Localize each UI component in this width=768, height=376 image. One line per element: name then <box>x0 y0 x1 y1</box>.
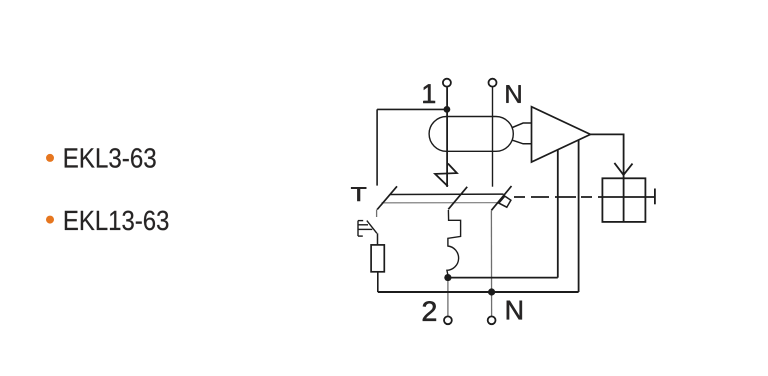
test button contact blade <box>367 221 377 234</box>
trip solenoid squiggle on pole 1 <box>447 210 461 275</box>
switch contact blade test branch <box>377 186 397 209</box>
trip coil center conductor <box>623 178 625 222</box>
switch contact blade pole N <box>491 186 511 210</box>
arrowhead into trip coil <box>614 163 632 175</box>
label 1 <box>423 84 435 103</box>
wire pole N vertical (terminal N down through toroid to fixed contact) <box>492 87 494 186</box>
mechanical linkage bar bottom line <box>382 202 501 204</box>
bullet list item 1 text EKL3-63 <box>65 148 156 168</box>
CT secondary winding link lower <box>512 140 531 144</box>
terminal 2 circle <box>444 316 452 324</box>
node junction dot pole 1 bottom <box>444 274 451 281</box>
trip actuator Z symbol on pole 1 <box>435 164 457 187</box>
dashed linkage to trip coil <box>514 196 602 198</box>
trip coil actuator line <box>602 196 654 198</box>
current transformer toroid <box>429 117 513 152</box>
wire test branch horizontal <box>377 108 447 110</box>
terminal N bottom circle <box>488 316 496 324</box>
wire pole 1 to terminal 2 <box>447 281 449 316</box>
wire pole 1 vertical (terminal 1 down through toroid to fixed contact) <box>446 87 448 186</box>
test button fixed lead <box>376 210 378 218</box>
label N bottom <box>507 301 522 320</box>
wire test branch vertical <box>376 109 378 185</box>
trip coil square <box>602 178 645 222</box>
label 2 <box>423 301 436 321</box>
bullet list item 2 marker <box>46 216 54 224</box>
node junction dot N bottom <box>488 288 495 295</box>
linkage handle square <box>499 196 511 207</box>
op-amp U1 triangle <box>532 107 591 162</box>
terminal N top circle <box>489 79 497 87</box>
wire amplifier supply left <box>557 150 559 278</box>
test button actuator E symbol <box>358 221 372 237</box>
wire pole N lower vertical <box>490 211 492 316</box>
CT secondary winding link upper <box>512 123 531 128</box>
switch contact blade pole 1 <box>448 187 467 210</box>
actuator end stop <box>654 189 656 205</box>
bullet list item 2 text EKL13-63 <box>65 211 168 231</box>
bottom bus wire <box>378 291 579 293</box>
wire amplifier supply right <box>578 140 580 292</box>
wire junction to amplifier supply left <box>448 277 558 279</box>
bullet list item 1 marker <box>46 154 54 162</box>
wire amplifier output to trip coil <box>590 134 623 178</box>
terminal 1 circle <box>443 79 451 87</box>
wire resistor to bottom bus <box>377 272 379 292</box>
label T test button <box>351 187 366 201</box>
resistor R1 <box>371 245 384 272</box>
mechanical linkage bar top line <box>391 193 504 195</box>
label N top <box>506 85 520 103</box>
wire button to resistor <box>377 233 379 245</box>
node junction dot on line 1 <box>444 106 451 113</box>
